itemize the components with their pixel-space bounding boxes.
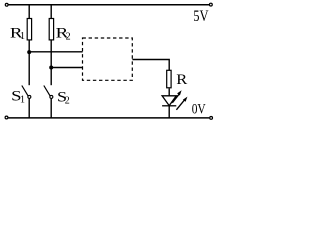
- terminal top-right 5V: [209, 3, 212, 6]
- wire top rail 5V: [8, 4, 209, 6]
- terminal bottom-right 0V: [210, 117, 213, 120]
- svg-text:2: 2: [65, 95, 70, 106]
- resistor R: [167, 70, 171, 88]
- switch S1: [22, 86, 31, 99]
- wire R2 top lead: [50, 6, 52, 20]
- switch S2: [44, 86, 53, 99]
- wire R to LED: [168, 88, 170, 96]
- wire gate output: [132, 60, 169, 71]
- svg-text:2: 2: [66, 32, 71, 43]
- gate U1 dashed box: [83, 38, 133, 80]
- wire bottom rail 0V: [8, 117, 209, 119]
- wire S1 bottom lead: [28, 98, 30, 118]
- svg-text:1: 1: [20, 95, 25, 106]
- wire R1 to S1: [28, 40, 30, 85]
- label S2: [57, 89, 70, 106]
- LED D1 diode: [162, 96, 176, 106]
- terminal top-left: [5, 3, 8, 6]
- label R2: [56, 25, 71, 42]
- terminal bottom-left: [5, 116, 8, 119]
- wire R2 to S2: [50, 40, 52, 85]
- svg-text:R: R: [176, 72, 187, 88]
- node A junction dot: [27, 50, 31, 54]
- resistor R2: [49, 19, 53, 40]
- svg-text:0V: 0V: [192, 102, 206, 118]
- wire S2 bottom lead: [50, 98, 52, 118]
- wire R1 top lead: [28, 6, 30, 20]
- resistor R1: [27, 19, 31, 40]
- wire input 2 to gate: [51, 67, 82, 69]
- node B junction dot: [49, 66, 53, 70]
- svg-text:5V: 5V: [193, 8, 209, 25]
- wire LED bottom lead: [168, 106, 170, 118]
- wire input 1 to gate: [29, 51, 82, 53]
- label R1: [10, 25, 25, 42]
- LED light arrows: [172, 90, 187, 110]
- svg-text:1: 1: [20, 31, 25, 42]
- label S1: [11, 89, 25, 106]
